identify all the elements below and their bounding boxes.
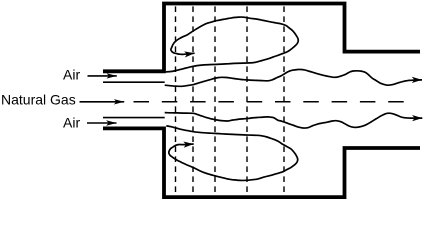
top recirculation spiral bbox=[166, 17, 298, 72]
burner lower wall: air duct bottom + left wall + bottom wall + bottom step + exit wall bbox=[103, 128, 420, 197]
top flow wavy line to outlet bbox=[165, 69, 422, 86]
flame front dashed line 5 bbox=[283, 6, 285, 195]
air inlet arrow (top) bbox=[88, 75, 117, 77]
lower air duct inner wall (thin) bbox=[103, 117, 165, 119]
svg-text:Natural Gas: Natural Gas bbox=[1, 92, 76, 108]
natural gas inlet arrow bbox=[80, 101, 125, 103]
upper air duct inner wall (thin) bbox=[103, 81, 165, 83]
centerline (dashed burner axis) bbox=[134, 101, 406, 103]
flame front dashed line 4 bbox=[246, 6, 248, 195]
svg-text:Air: Air bbox=[63, 67, 80, 83]
svg-text:Air: Air bbox=[63, 115, 80, 131]
bottom flow wavy line to outlet bbox=[165, 113, 423, 128]
bottom recirculation spiral bbox=[166, 126, 297, 181]
air inlet arrow (bottom) bbox=[87, 122, 117, 124]
burner upper wall: air duct top + left wall + top wall + top step + exit wall bbox=[103, 4, 420, 72]
flame front dashed line 1 bbox=[175, 6, 177, 195]
flame front dashed line 2 bbox=[192, 6, 194, 195]
flame front dashed line 3 bbox=[214, 6, 216, 195]
